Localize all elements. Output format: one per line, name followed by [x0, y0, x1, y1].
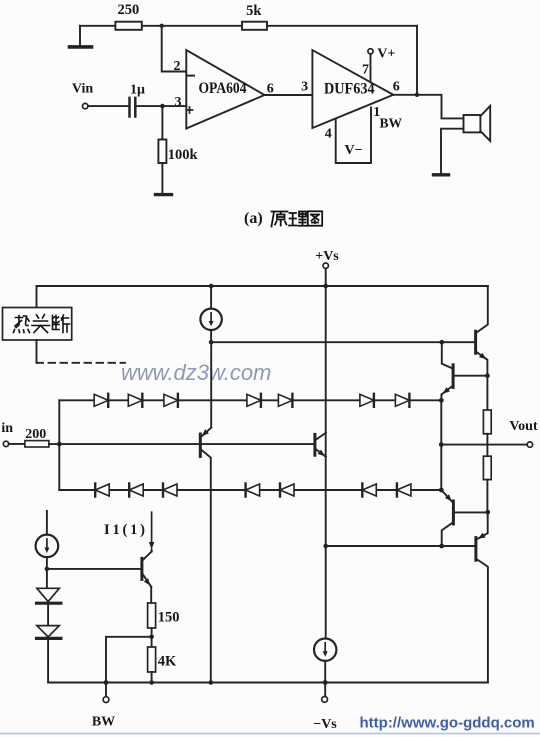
node drive left [209, 340, 214, 345]
current source I3 bottom [314, 639, 336, 683]
wire cs1 down to Q1 [210, 342, 212, 428]
node output feedback junction [415, 93, 419, 97]
wire capacitor to pin3 [135, 105, 186, 107]
resistor R top [483, 410, 491, 434]
svg-text:6: 6 [393, 80, 400, 95]
diode D14 [397, 484, 411, 497]
wire top feedback rail [80, 25, 417, 27]
wire bottom rail [48, 682, 488, 684]
diode D6 [360, 394, 374, 407]
diode D5 [278, 394, 292, 407]
diode D7 [395, 394, 409, 407]
svg-text:(a): (a) [244, 210, 263, 227]
svg-text:+Vs: +Vs [315, 249, 339, 264]
wire I1 arrow [149, 512, 154, 551]
speaker LS1 [464, 106, 491, 141]
diode D4 [247, 394, 261, 407]
diode D2 [128, 394, 142, 407]
node 150-4K junction [149, 635, 154, 640]
node 4K rail [149, 680, 154, 685]
node vout junction [439, 442, 444, 447]
ground below 100k [156, 193, 172, 196]
node feedback junction [160, 24, 164, 28]
svg-text:DUF634: DUF634 [324, 80, 375, 97]
transistor Q7 driver bottom [441, 490, 487, 546]
wire 150 to 4K [151, 628, 153, 647]
wire drive rail [211, 341, 442, 343]
wire opa output to buffer [265, 94, 313, 96]
node drive right [440, 340, 445, 345]
svg-text:4K: 4K [158, 654, 177, 670]
wire nodeA to Rtop [486, 376, 488, 410]
node pin3 junction [160, 104, 165, 109]
resistor 100k [158, 140, 198, 164]
buffer U2 DUF634 [312, 50, 393, 128]
pin 3 label buf [301, 80, 308, 95]
pin 6 output wire [393, 80, 464, 119]
svg-text:5k: 5k [246, 3, 262, 19]
svg-text:3: 3 [301, 80, 308, 95]
wire 100k to ground [161, 163, 163, 194]
pin 2 label [174, 59, 181, 74]
diode D11 [246, 484, 260, 497]
svg-text:Vout: Vout [509, 419, 538, 434]
node Q1 collector rail [209, 680, 214, 685]
ground below speaker [434, 173, 449, 176]
thermal char re [14, 316, 30, 333]
current source I1 top [200, 286, 221, 342]
thermal shutdown box [3, 308, 72, 341]
node rail cs1 [209, 284, 214, 289]
wire base line Q4 [47, 568, 140, 570]
node rail vs [323, 284, 328, 289]
watermark dz3w [121, 360, 271, 385]
wire Vin to capacitor [88, 105, 129, 107]
node bias right [439, 544, 444, 549]
speaker lower wire [441, 129, 464, 174]
transistor Q6 driver top [441, 342, 487, 400]
thermal char guan [32, 315, 50, 333]
plus input marker [187, 107, 193, 113]
pin 3 label [175, 95, 182, 110]
wire BW branch [106, 637, 152, 683]
wire in to 200 [9, 443, 25, 445]
diode D16 vertical [37, 626, 61, 682]
wire thermal box to dashed [36, 340, 38, 363]
ground top-left [70, 26, 92, 47]
wire vout line [441, 444, 527, 446]
terminal Vout [509, 419, 538, 447]
label I1(1) [104, 522, 145, 538]
svg-text:4: 4 [325, 127, 332, 142]
transistor Q5 npn top output [442, 286, 488, 376]
resistor 5k [242, 3, 267, 30]
svg-text:BW: BW [92, 715, 115, 730]
minus input marker [188, 75, 194, 77]
resistor 250 [115, 2, 141, 30]
svg-text:2: 2 [174, 59, 181, 74]
svg-text:I1(1): I1(1) [104, 522, 145, 538]
transistor Q2 npn input [315, 433, 326, 457]
node bottom diode row right [439, 488, 444, 493]
svg-text:OPA604: OPA604 [199, 80, 247, 97]
diode D10 [163, 484, 177, 497]
transistor Q1 pnp input [200, 428, 211, 683]
caption char yuan [272, 212, 288, 227]
resistor 150 [148, 603, 180, 628]
wire feedback right vertical [416, 26, 418, 95]
transistor Q8 pnp bottom output [442, 512, 488, 682]
svg-text:V−: V− [344, 143, 362, 158]
svg-text:www.dz3w.com: www.dz3w.com [121, 360, 271, 385]
resistor 4K [148, 647, 177, 672]
svg-text:in: in [1, 421, 13, 436]
svg-text:200: 200 [25, 427, 46, 442]
terminal Vin [72, 82, 93, 109]
wire bias line [326, 545, 442, 547]
pin 6 label opa [267, 82, 274, 97]
footer rule [0, 733, 540, 735]
node bias base junction [45, 567, 50, 572]
svg-text:250: 250 [118, 2, 140, 18]
diode D15 vertical [37, 588, 61, 625]
svg-text:150: 150 [158, 610, 180, 626]
wire Rtop to vout [486, 434, 488, 456]
diode D8 [95, 484, 109, 497]
svg-text:Vin: Vin [72, 82, 93, 97]
diode D3 [164, 394, 178, 407]
resistor R bottom [483, 456, 491, 479]
pin 1 BW label [373, 105, 402, 131]
node cs3 rail [323, 680, 328, 685]
diode D1 [94, 394, 108, 407]
caption (a) schematic [244, 210, 263, 227]
wire rail to thermal box [36, 286, 38, 308]
node B bottom junction [485, 510, 490, 515]
svg-text:1μ: 1μ [130, 83, 145, 98]
svg-text:−Vs: −Vs [313, 717, 337, 732]
wire cs2 to diode [46, 569, 48, 588]
terminal in [1, 421, 13, 447]
node top diode row right [439, 398, 444, 403]
wire junction to 100k [161, 106, 163, 139]
wire feedback to pin2 [162, 26, 187, 72]
diode D13 [362, 484, 376, 497]
wire vout column [440, 400, 442, 490]
current source I2 bottom-left [36, 511, 59, 569]
node BW rail [104, 680, 109, 685]
wire left diode rail [58, 400, 60, 490]
wire +Vs stub [325, 268, 327, 286]
svg-text:3: 3 [175, 95, 182, 110]
V- box pin4 [325, 108, 371, 164]
wire vs column [325, 286, 327, 638]
node input junction [57, 442, 62, 447]
diode D9 [129, 484, 143, 497]
terminal BW [92, 683, 115, 730]
wire top diode row [59, 399, 441, 401]
wire dashed sense line [37, 362, 126, 364]
transistor Q4 npn bias [142, 552, 152, 604]
svg-text:http://www.go-gddq.com: http://www.go-gddq.com [360, 715, 535, 732]
resistor 200 [25, 427, 49, 447]
watermark gddq url [360, 715, 535, 732]
terminal +Vs [315, 249, 339, 268]
caption char li [289, 212, 307, 226]
wire input node line [49, 443, 314, 445]
wire 4K to rail [151, 672, 153, 683]
capacitor C1 1u [130, 83, 146, 117]
wire top supply rail [37, 285, 488, 287]
thermal char duan [53, 315, 70, 333]
terminal V+ [368, 47, 396, 62]
pin 7 wire [362, 54, 371, 83]
node bias left [323, 544, 328, 549]
op-amp U1 OPA604 [186, 50, 264, 129]
caption char tu [308, 211, 322, 225]
terminal -Vs [313, 683, 337, 733]
svg-text:7: 7 [362, 63, 369, 78]
wire Rbot to nodeB [486, 480, 488, 513]
svg-text:6: 6 [267, 82, 274, 97]
wire bottom diode row [59, 489, 441, 491]
diode D12 [280, 484, 294, 497]
svg-text:V+: V+ [377, 47, 395, 62]
node A top output emitter [485, 373, 490, 378]
svg-text:100k: 100k [168, 147, 199, 163]
svg-text:BW: BW [380, 116, 403, 131]
